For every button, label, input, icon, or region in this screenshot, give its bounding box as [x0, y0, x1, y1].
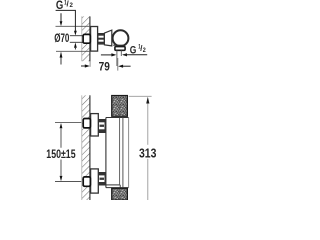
svg-text:79: 79	[99, 59, 110, 73]
svg-text:2: 2	[70, 2, 74, 9]
svg-text:2: 2	[143, 48, 147, 54]
svg-text:Ø70: Ø70	[54, 31, 69, 45]
svg-text:313: 313	[139, 145, 156, 160]
svg-text:150±15: 150±15	[46, 147, 75, 161]
svg-text:G: G	[130, 45, 137, 57]
